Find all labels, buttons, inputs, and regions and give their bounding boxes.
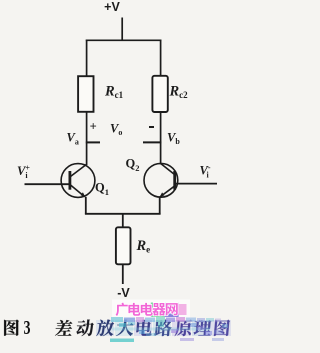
resistor Rc2 bbox=[152, 76, 167, 112]
svg-text:+V: +V bbox=[104, 0, 120, 14]
caption char 电 bbox=[136, 320, 153, 336]
wire Rc2 to Q2 collector bbox=[160, 112, 162, 165]
resistor Rc1 bbox=[78, 76, 93, 112]
wire Q2 base lead bbox=[175, 183, 217, 185]
watermark char 广 bbox=[116, 303, 129, 316]
transistor Q1 bbox=[61, 164, 95, 198]
caption char 差 bbox=[55, 320, 73, 336]
wire emitter rail bbox=[85, 213, 161, 215]
svg-text:+: + bbox=[90, 119, 97, 133]
caption char 放 bbox=[96, 320, 114, 337]
caption 图 bbox=[4, 320, 19, 336]
label - polarity bbox=[149, 126, 154, 128]
node Va terminal tick bbox=[86, 141, 100, 143]
caption char 理 bbox=[193, 320, 211, 336]
svg-text:3: 3 bbox=[24, 317, 31, 339]
transistor Q2 bbox=[144, 163, 178, 197]
watermark jpeg noise row bbox=[111, 317, 221, 322]
caption char 图 bbox=[214, 320, 230, 336]
watermark char 器 bbox=[152, 303, 166, 316]
watermark block bg violet behind 网 bbox=[164, 303, 178, 318]
caption char 大 bbox=[116, 320, 134, 336]
svg-text:-V: -V bbox=[117, 286, 130, 300]
watermark block bg green behind 器 bbox=[151, 303, 165, 318]
wire Rc1 to Q1 collector bbox=[86, 112, 88, 165]
node Vb terminal tick bbox=[143, 141, 161, 143]
caption char 动 bbox=[76, 320, 94, 337]
watermark char 网 bbox=[166, 303, 178, 315]
wire rail to Rc2 bbox=[160, 40, 162, 77]
watermark char 电 bbox=[141, 303, 153, 316]
wire +V stub bbox=[121, 18, 123, 41]
watermark halo bbox=[112, 300, 190, 318]
wire rail to Rc1 bbox=[86, 40, 88, 77]
wire Q2 emitter drop bbox=[159, 197, 161, 214]
caption char 路 bbox=[154, 320, 172, 337]
watermark char 电 bbox=[128, 303, 140, 316]
watermark pink smudge tail bbox=[179, 304, 187, 315]
wire Q1 base lead bbox=[25, 183, 70, 185]
wire Re to -V bbox=[122, 264, 124, 284]
wire Q1 emitter drop bbox=[85, 197, 87, 214]
watermark noise tint over caption bbox=[96, 320, 231, 342]
wire top rail bbox=[86, 39, 162, 41]
caption char 原 bbox=[175, 320, 193, 337]
wire rail to Re bbox=[122, 214, 124, 228]
resistor Re bbox=[116, 227, 131, 264]
